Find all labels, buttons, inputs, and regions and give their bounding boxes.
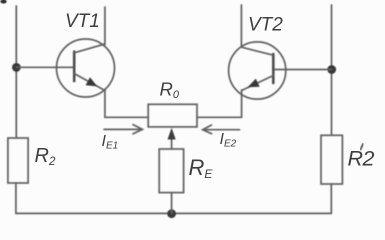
wire: VT2 base lead bbox=[273, 69, 331, 71]
R0 wiper arrow bbox=[168, 128, 176, 149]
resistor R'2 body bbox=[321, 135, 342, 184]
wire: VT1 collector lead bbox=[104, 7, 106, 45]
transistor VT2 bbox=[229, 42, 286, 99]
scan artifact dot top-left corner bbox=[0, 0, 6, 4]
wire: right rail below R'2 bbox=[330, 184, 332, 213]
wire: RE to bottom rail bbox=[171, 193, 173, 214]
svg-text:VT1: VT1 bbox=[65, 11, 100, 32]
transistor VT1 bbox=[57, 39, 115, 97]
current arrow I_E1 (pointing right toward R0) bbox=[104, 125, 142, 134]
potentiometer R0 body bbox=[148, 104, 197, 127]
svg-text:VT2: VT2 bbox=[248, 15, 283, 36]
resistor RE body bbox=[159, 149, 183, 193]
svg-text:RE: RE bbox=[189, 155, 214, 181]
node: junction dot left rail / VT1 base bbox=[12, 63, 21, 72]
wire: bottom rail bbox=[16, 212, 331, 214]
node: junction dot right rail / VT2 base bbox=[327, 65, 336, 74]
wire: VT2 collector lead bbox=[240, 5, 242, 47]
svg-text:R2: R2 bbox=[35, 145, 56, 168]
wire: left rail below R2 to bottom rail bbox=[15, 183, 17, 213]
svg-text:IE2: IE2 bbox=[220, 131, 237, 150]
svg-text:IE1: IE1 bbox=[102, 133, 119, 152]
wire: VT2 emitter down and to R0 right terminal bbox=[197, 90, 242, 117]
resistor R2 body bbox=[8, 138, 28, 183]
wire: VT1 emitter down and to R0 left terminal bbox=[105, 90, 148, 118]
current arrow I_E2 (pointing left toward R0) bbox=[203, 125, 240, 134]
wire: VT1 base lead bbox=[16, 66, 74, 68]
label R'2 prime mark bbox=[360, 144, 363, 150]
svg-text:R0: R0 bbox=[160, 79, 180, 102]
wire: right supply rail bbox=[331, 5, 333, 135]
node: junction dot RE / bottom rail bbox=[167, 209, 176, 218]
wire: left supply rail bbox=[15, 6, 17, 138]
